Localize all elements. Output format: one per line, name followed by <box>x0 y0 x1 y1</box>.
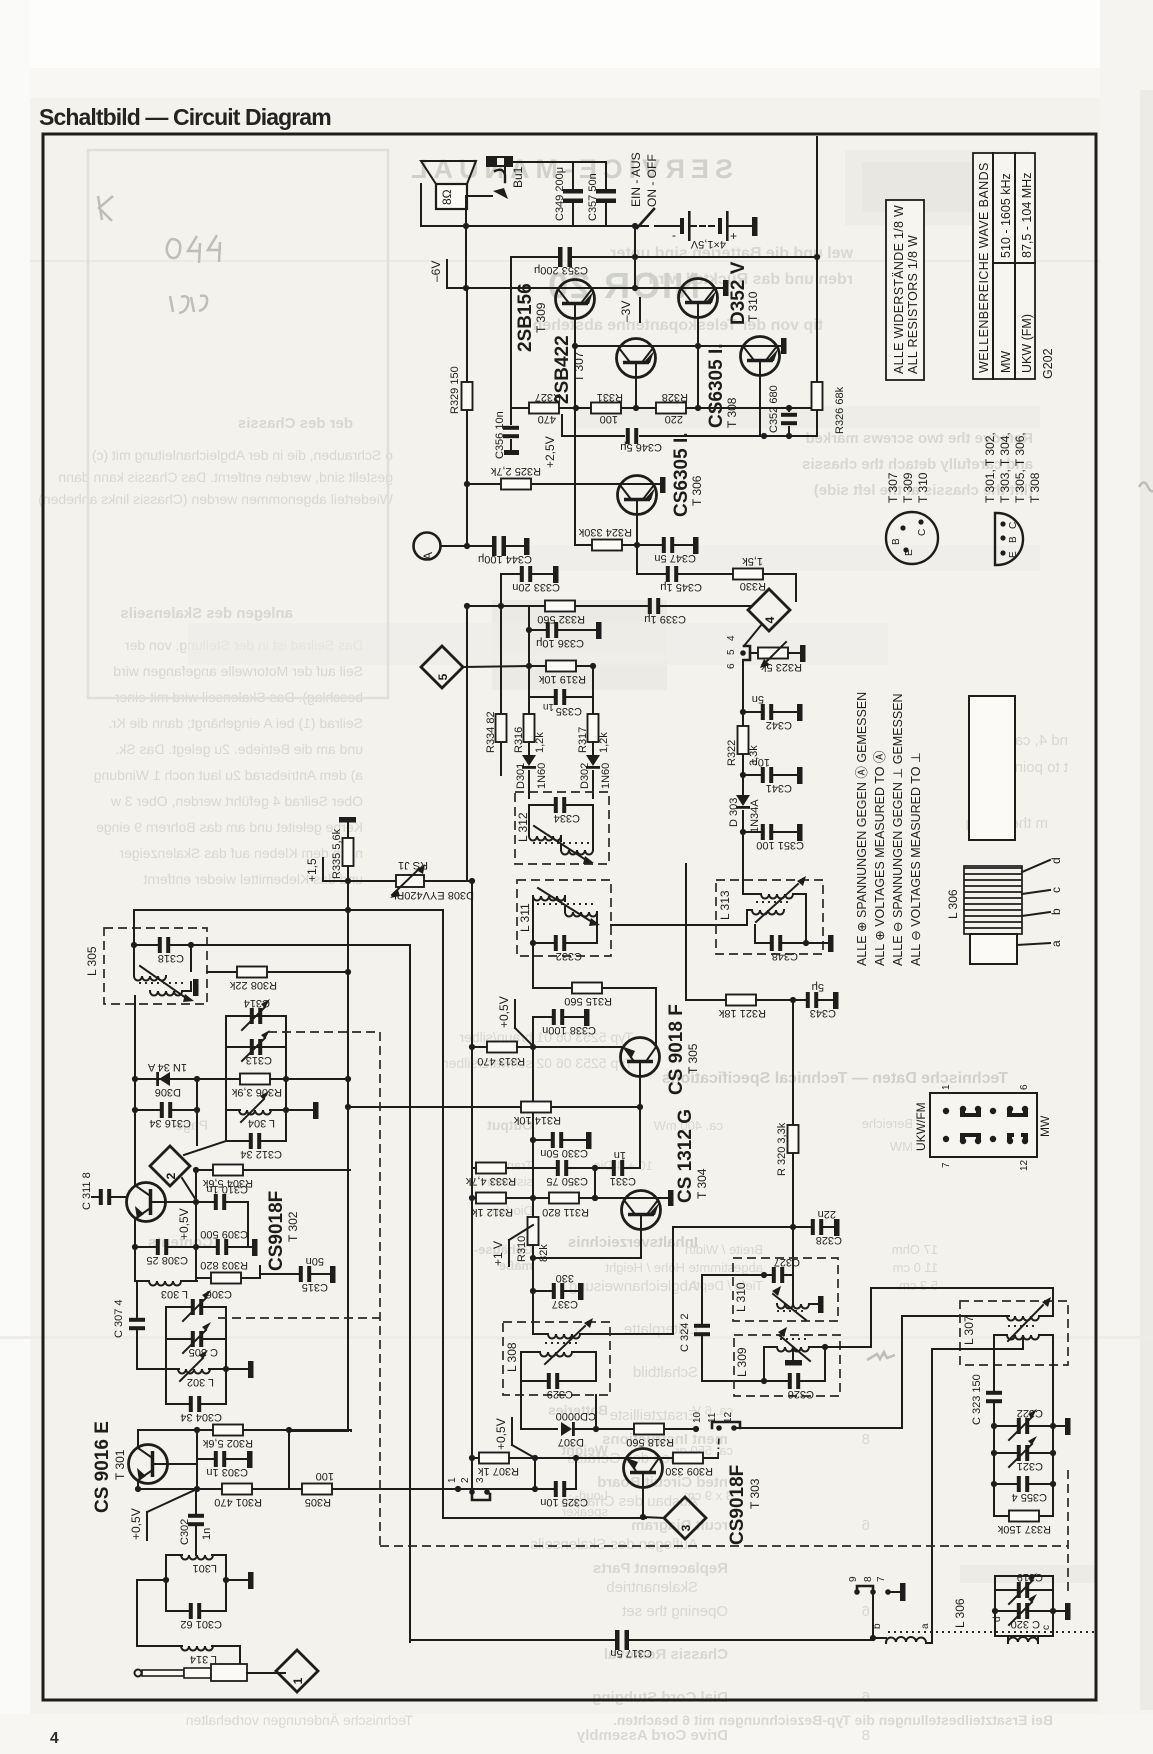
transistor D352V T310 <box>679 279 718 318</box>
capacitor C310 1n <box>196 1202 248 1247</box>
svg-text:1,2k: 1,2k <box>534 732 546 753</box>
earphone jack Bu1 <box>486 156 513 167</box>
capacitor C349 200u <box>572 162 574 226</box>
svg-text:C347 5n: C347 5n <box>654 552 696 564</box>
resistor R330 1.5k <box>733 569 763 580</box>
resistor R306 3.9k <box>226 1078 286 1080</box>
main vertical to R321 <box>686 864 728 1000</box>
bus y1489 with R301 / R305 <box>138 1488 458 1490</box>
svg-text:ALL ⊕ VOLTAGES MEASURED TO Ⓐ: ALL ⊕ VOLTAGES MEASURED TO Ⓐ <box>873 750 887 966</box>
svg-text:9: 9 <box>848 1576 859 1582</box>
L308 coil to C328 node riser <box>580 1227 793 1334</box>
svg-text:Inhaltsverzeichnis: Inhaltsverzeichnis <box>568 1234 698 1251</box>
svg-text:L 310: L 310 <box>734 1282 748 1312</box>
svg-text:1N60: 1N60 <box>536 763 548 789</box>
svg-text:6: 6 <box>862 1603 870 1620</box>
svg-text:C321: C321 <box>1017 1460 1043 1472</box>
faint reversed logo blocks <box>845 150 1030 225</box>
svg-text:nach dem Kleben auf das Skalen: nach dem Kleben auf das Skalenzeiger <box>119 845 363 861</box>
svg-text:+0,5V: +0,5V <box>497 996 511 1028</box>
svg-text:C: C <box>1008 522 1019 529</box>
svg-text:T 309: T 309 <box>534 302 548 333</box>
resistor R315 560 <box>572 983 602 994</box>
telescopic antenna <box>135 1670 142 1677</box>
svg-text:b: b <box>872 1623 883 1629</box>
coil L312 windings <box>529 805 593 831</box>
resistor R319 10k <box>526 663 532 669</box>
resistor R325 2.7k <box>467 483 660 485</box>
svg-text:R309 330: R309 330 <box>665 1465 713 1477</box>
resistor R316 1.2k (vertical) <box>524 714 535 742</box>
capacitor C304 34 <box>166 1403 226 1405</box>
svg-text:UKW (FM): UKW (FM) <box>1020 314 1034 373</box>
svg-text:C306: C306 <box>206 1288 232 1300</box>
R322 column down from pot <box>742 660 744 712</box>
svg-text:ALL ⊖ VOLTAGES MEASURED TO ⊥: ALL ⊖ VOLTAGES MEASURED TO ⊥ <box>909 752 923 966</box>
svg-text:A: A <box>421 552 435 560</box>
wire bus right corner down <box>443 910 646 1518</box>
svg-text:R312 1k: R312 1k <box>472 1206 513 1218</box>
svg-text:87,5 - 104 MHz: 87,5 - 104 MHz <box>1020 173 1034 258</box>
resistor R303 820 <box>196 1266 260 1278</box>
diamond node 5 <box>421 646 463 688</box>
svg-text:C 324 2: C 324 2 <box>679 1313 691 1352</box>
svg-text:a: a <box>920 1623 931 1629</box>
wire diamond to pot pins <box>744 624 762 646</box>
svg-text:C 323 150: C 323 150 <box>971 1374 983 1425</box>
svg-text:C312 34: C312 34 <box>240 1148 282 1160</box>
resistor R308 22k <box>207 971 348 973</box>
resistor row: R327 470 <box>511 407 710 409</box>
resistor R326 68k (vertical) + feed from frame top <box>816 137 818 436</box>
svg-text:C341: C341 <box>766 782 792 794</box>
trimmer C319 <box>995 1589 1053 1591</box>
svg-text:C334: C334 <box>554 812 580 824</box>
svg-text:+1 V: +1 V <box>491 1241 505 1266</box>
svg-text:R310: R310 <box>516 1236 528 1262</box>
wire bus drop left <box>510 257 512 408</box>
wire L311 bottom to R315 <box>533 943 572 988</box>
svg-text:C302: C302 <box>179 1519 191 1545</box>
svg-text:7: 7 <box>876 1576 887 1582</box>
svg-text:Abgleichanweisung: Abgleichanweisung <box>569 1278 698 1295</box>
node junction <box>463 223 469 229</box>
svg-text:R305: R305 <box>305 1496 331 1508</box>
wire battery to ground <box>729 225 752 227</box>
wave band table <box>973 153 1035 379</box>
svg-text:R327: R327 <box>535 391 561 403</box>
svg-text:R307 1k: R307 1k <box>478 1465 519 1477</box>
svg-text:C350 75: C350 75 <box>546 1175 588 1187</box>
coil box L307 <box>960 1301 1068 1365</box>
resistor R302 5.6k <box>138 1430 351 1431</box>
svg-text:C308 25: C308 25 <box>146 1254 188 1266</box>
svg-text:C331: C331 <box>610 1175 636 1187</box>
svg-text:3: 3 <box>475 1477 486 1483</box>
svg-text:1N34A: 1N34A <box>749 799 761 833</box>
C319/C320 box <box>995 1576 1053 1636</box>
svg-text:C356 10n: C356 10n <box>494 411 506 459</box>
pins 10 11 12 <box>693 1426 699 1432</box>
coil L301 box <box>166 1555 226 1611</box>
svg-text:C316 34: C316 34 <box>149 1117 191 1129</box>
capacitor C347 5n + ground <box>637 544 693 546</box>
svg-text:Kerbe geleitet und am das Bohr: Kerbe geleitet und am das Bohrern 9 eing… <box>96 819 363 835</box>
capacitor C308 25 <box>132 1244 138 1250</box>
svg-text:CS9018F: CS9018F <box>266 1191 287 1271</box>
svg-text:R337 150k: R337 150k <box>997 1523 1051 1535</box>
wire L309 to L307 <box>825 1288 1053 1347</box>
wire Bu1 to junction <box>505 162 606 182</box>
svg-text:+2,5V: +2,5V <box>543 436 557 468</box>
svg-text:R322: R322 <box>726 740 738 766</box>
svg-text:470: 470 <box>538 413 556 425</box>
long bus y910 <box>134 909 443 911</box>
resistor R318 560 <box>634 1424 664 1435</box>
ground (battery) <box>752 217 758 236</box>
tuner box 2 verticals <box>166 1307 226 1404</box>
svg-text:1: 1 <box>447 1477 458 1483</box>
svg-text:CS9018F: CS9018F <box>727 1465 748 1545</box>
trimmer C314 <box>226 1015 286 1017</box>
transistor CS6305 T308 <box>741 337 780 376</box>
svg-text:Replacement Parts: Replacement Parts <box>593 1560 728 1577</box>
svg-text:R319 10k: R319 10k <box>538 673 586 685</box>
trimmer C313 <box>226 1046 286 1048</box>
svg-text:C315: C315 <box>302 1281 328 1293</box>
L307 tap down-left to L306 <box>932 1337 1023 1632</box>
svg-text:1,5k: 1,5k <box>742 555 763 567</box>
svg-text:220: 220 <box>665 413 683 425</box>
svg-text:CS6305 I.: CS6305 I. <box>671 433 692 518</box>
svg-text:T 310: T 310 <box>916 472 930 503</box>
svg-text:C337: C337 <box>552 1298 578 1310</box>
svg-text:C309 500: C309 500 <box>200 1228 248 1240</box>
svg-text:C336 10μ: C336 10μ <box>536 637 584 649</box>
svg-text:+1,5: +1,5 <box>305 858 319 882</box>
node row 606 <box>498 603 504 609</box>
resistor R333 4.7k <box>472 1167 533 1169</box>
svg-text:C304 34: C304 34 <box>180 1411 222 1423</box>
resistor R301 470 <box>222 1484 252 1495</box>
svg-text:R324 330k: R324 330k <box>578 526 632 538</box>
ground stub mid <box>283 1107 289 1113</box>
svg-text:T 308: T 308 <box>725 397 739 428</box>
resistor R337 150k <box>994 1515 1053 1517</box>
svg-text:R314 10k: R314 10k <box>513 1114 561 1126</box>
svg-text:R332 560: R332 560 <box>537 613 585 625</box>
svg-text:R323 5k: R323 5k <box>761 661 802 673</box>
svg-text:D301: D301 <box>515 763 527 789</box>
diode D302 1N60 <box>586 755 600 769</box>
svg-text:Dial Cord Stubging: Dial Cord Stubging <box>592 1689 728 1706</box>
svg-text:R301 470: R301 470 <box>214 1496 262 1508</box>
svg-text:Seil auf der Motorwelle angefa: Seil auf der Motorwelle angefangen wird <box>113 663 363 679</box>
long verticals <box>289 1430 348 1432</box>
svg-text:ALLE WIDERSTÄNDE 1/8 W: ALLE WIDERSTÄNDE 1/8 W <box>892 205 906 374</box>
svg-text:MW: MW <box>999 351 1013 373</box>
svg-text:5: 5 <box>436 673 450 680</box>
transistor 2SB156 T309 <box>556 280 595 319</box>
svg-text:1: 1 <box>941 1084 952 1090</box>
svg-text:C355 4: C355 4 <box>1012 1491 1047 1503</box>
wire L311 to L313 <box>611 910 747 925</box>
svg-text:ALLE ⊕ SPANNUNGEN GEGEN Ⓐ GEME: ALLE ⊕ SPANNUNGEN GEGEN Ⓐ GEMESSEN <box>855 692 869 966</box>
svg-text:22n: 22n <box>818 1208 836 1220</box>
svg-text:R329 150: R329 150 <box>449 366 461 414</box>
resistor R324 330k <box>592 540 622 551</box>
svg-text:MW: MW <box>1038 1115 1052 1137</box>
capacitor C328 22n + ground <box>790 1224 796 1230</box>
svg-text:6: 6 <box>862 1689 870 1706</box>
svg-text:C353 200μ: C353 200μ <box>534 264 588 276</box>
svg-text:10: 10 <box>692 1411 703 1423</box>
svg-text:Bei Ersatzteilbestellungen die: Bei Ersatzteilbestellungen die Typ-Bezei… <box>613 1712 1053 1728</box>
svg-text:E: E <box>1008 551 1019 558</box>
capacitor C316 34 <box>135 1109 197 1111</box>
capacitor C315 50n + ground <box>260 1273 330 1275</box>
svg-text:anlegen des Skalenseils: anlegen des Skalenseils <box>120 605 293 622</box>
svg-text:R315 560: R315 560 <box>564 995 612 1007</box>
diode D303 1N34A <box>742 775 744 796</box>
svg-text:ALLE ⊖ SPANNUNGEN GEGEN ⊥ GEME: ALLE ⊖ SPANNUNGEN GEGEN ⊥ GEMESSEN <box>891 693 905 966</box>
resistor R304 5.6k <box>196 1169 350 1171</box>
svg-text:12: 12 <box>1019 1159 1030 1171</box>
svg-text:C310 1n: C310 1n <box>206 1183 248 1195</box>
svg-text:R313 470: R313 470 <box>477 1055 525 1067</box>
resistor note box <box>886 200 924 380</box>
svg-text:C 311 8: C 311 8 <box>81 1172 93 1210</box>
svg-text:C329: C329 <box>547 1388 573 1400</box>
svg-text:8: 8 <box>863 1576 874 1582</box>
svg-text:T 307: T 307 <box>572 351 586 382</box>
svg-text:1n: 1n <box>614 1149 626 1161</box>
svg-text:C352 680: C352 680 <box>768 385 780 433</box>
svg-text:1N60: 1N60 <box>600 763 612 789</box>
svg-text:Ersatzteilliste: Ersatzteilliste <box>610 1407 698 1424</box>
trimmer C305 <box>166 1338 226 1340</box>
svg-text:Schaltbild: Schaltbild <box>633 1364 698 1381</box>
svg-text:Bu1: Bu1 <box>511 166 525 188</box>
coil L314 <box>137 1580 240 1668</box>
svg-text:C357 50n: C357 50n <box>587 173 599 221</box>
svg-text:L 313: L 313 <box>718 890 732 920</box>
coil L303 <box>149 1281 181 1286</box>
capacitor C312 34 <box>226 1140 286 1142</box>
svg-text:C348: C348 <box>772 950 798 962</box>
svg-text:L 302: L 302 <box>187 1376 214 1388</box>
svg-text:D307: D307 <box>558 1436 584 1448</box>
capacitor C351 100 + ground <box>740 829 746 835</box>
svg-text:C344 100μ: C344 100μ <box>478 553 532 565</box>
svg-text:L 312: L 312 <box>516 812 530 842</box>
link to box <box>197 1078 226 1080</box>
svg-text:E: E <box>904 549 915 556</box>
transistor CS9016E T301 <box>129 1445 168 1484</box>
node A (circled) <box>414 533 441 560</box>
capacitor C343 5u + ground <box>806 992 818 1008</box>
svg-text:MW: MW <box>889 1139 913 1154</box>
svg-text:C333 20n: C333 20n <box>512 581 560 593</box>
coil L304 <box>226 1109 286 1111</box>
coil box L305 <box>104 928 207 1004</box>
svg-text:R302 5,6k: R302 5,6k <box>202 1437 253 1449</box>
svg-text:C325 10n: C325 10n <box>540 1496 588 1508</box>
coil box L310 <box>733 1258 838 1321</box>
coil L302 + ground <box>166 1368 226 1370</box>
T310 base column junction <box>695 405 701 411</box>
capacitor C341 10n + ground <box>740 772 746 778</box>
svg-text:L 309: L 309 <box>735 1347 749 1377</box>
resistor R335 5.6k (vertical) <box>343 838 354 866</box>
svg-text:10n: 10n <box>752 756 770 768</box>
svg-text:C 320: C 320 <box>1011 1618 1040 1630</box>
svg-text:R325 2,7k: R325 2,7k <box>490 465 541 477</box>
svg-text:C342: C342 <box>766 719 792 731</box>
svg-text:Technische Daten — Technical S: Technische Daten — Technical Specificati… <box>662 1070 1008 1087</box>
svg-text:T 308: T 308 <box>1028 472 1042 503</box>
voltage measurement note (rotated) <box>855 692 923 966</box>
svg-text:C345 1μ: C345 1μ <box>660 581 702 593</box>
svg-text:CS 9018 F: CS 9018 F <box>666 1004 687 1095</box>
svg-text:R326 68k: R326 68k <box>834 386 846 434</box>
svg-text:R335 5,6k: R335 5,6k <box>331 828 343 879</box>
svg-text:C303 1n: C303 1n <box>206 1466 248 1478</box>
svg-text:1N 34 A: 1N 34 A <box>147 1061 187 1073</box>
svg-text:Seilrad (1) bei A eingehängt;: Seilrad (1) bei A eingehängt; dann die K… <box>108 715 363 731</box>
svg-text:d: d <box>1049 857 1063 864</box>
svg-text:8: 8 <box>862 1727 870 1744</box>
svg-text:R311 820: R311 820 <box>542 1206 589 1218</box>
svg-text:T 304: T 304 <box>695 1168 709 1199</box>
ground stub L301 <box>226 1579 248 1581</box>
svg-text:d: d <box>992 1616 1003 1622</box>
svg-text:Drive Cord Assembly: Drive Cord Assembly <box>576 1727 728 1744</box>
svg-text:CS 9016 E: CS 9016 E <box>92 1421 113 1513</box>
resistor R314 10k row <box>348 1106 640 1108</box>
svg-text:510 - 1605 kHz: 510 - 1605 kHz <box>999 173 1013 258</box>
diamond node 4 <box>748 589 790 631</box>
resistor R310 82k (vertical) <box>528 1217 539 1245</box>
battery 4x1.5V <box>680 218 684 234</box>
svg-text:7: 7 <box>941 1162 952 1168</box>
svg-text:5μ: 5μ <box>812 981 824 993</box>
svg-text:C338 100n: C338 100n <box>542 1024 596 1036</box>
capacitor C326 <box>761 1378 767 1384</box>
svg-text:–3V: –3V <box>619 301 633 322</box>
svg-text:T 305: T 305 <box>686 1043 700 1074</box>
svg-text:R316: R316 <box>513 727 525 753</box>
capacitor C336 10u + ground <box>526 627 532 633</box>
svg-text:CS 1312 G: CS 1312 G <box>675 1109 696 1203</box>
coil box L311 <box>517 880 611 956</box>
svg-text:C349 200μ: C349 200μ <box>554 167 566 221</box>
resistor R312 1k <box>472 1197 533 1199</box>
svg-text:a) dem Antriebsrad 2u laut noc: a) dem Antriebsrad 2u laut noch 1 Windun… <box>94 767 363 783</box>
svg-text:1,2k: 1,2k <box>598 732 610 753</box>
svg-text:T 302: T 302 <box>286 1211 300 1242</box>
svg-text:L301: L301 <box>193 1562 217 1574</box>
svg-text:C335: C335 <box>556 705 582 717</box>
resistor R305 100 <box>302 1484 332 1495</box>
svg-text:330: 330 <box>556 1272 574 1284</box>
svg-text:R318 560: R318 560 <box>626 1436 674 1448</box>
coil box L309 <box>734 1335 840 1396</box>
wire speaker bottom <box>465 209 467 226</box>
svg-text:R303 820: R303 820 <box>200 1259 248 1271</box>
svg-text:6: 6 <box>1019 1084 1030 1090</box>
svg-text:WELLENBEREICHE WAVE BANDS: WELLENBEREICHE WAVE BANDS <box>977 162 991 373</box>
capacitor C344 100u + ground <box>467 545 524 547</box>
capacitor C318 <box>131 942 137 948</box>
svg-text:+0,5V: +0,5V <box>494 1418 508 1450</box>
svg-text:CD0000: CD0000 <box>556 1410 596 1422</box>
potentiometer RS J1 / D308 EYV420PI <box>348 880 396 882</box>
svg-text:5n: 5n <box>752 693 764 705</box>
svg-text:C343: C343 <box>810 1007 836 1019</box>
wire pin12 right and up to L307 <box>734 1316 1009 1428</box>
resistor R334 82 (vertical) <box>500 606 502 775</box>
resistor R309 330 <box>673 1453 703 1464</box>
resistor R332 560 <box>501 605 751 607</box>
svg-text:C319: C319 <box>1017 1571 1043 1583</box>
capacitor C325 10n <box>532 1486 538 1492</box>
svg-text:T 310: T 310 <box>746 291 760 322</box>
diamond node 3 <box>664 1497 706 1539</box>
-6V rail through T309/T310 collectors <box>447 287 723 289</box>
svg-text:Auflegen des Skalenseils: Auflegen des Skalenseils <box>530 1536 698 1553</box>
svg-text:5 3 cm: 5 3 cm <box>899 1278 938 1293</box>
vertical jack junction down to -6V rail <box>465 226 467 288</box>
svg-text:R308 22k: R308 22k <box>229 979 277 991</box>
svg-text:C313: C313 <box>246 1054 272 1066</box>
potentiometer R323 5k <box>758 648 788 659</box>
L313 windings <box>761 894 793 899</box>
resistor R313 470 <box>472 1046 533 1048</box>
svg-text:abgestimmte Höhe / Height: abgestimmte Höhe / Height <box>605 1260 763 1275</box>
svg-text:5: 5 <box>726 649 737 655</box>
svg-text:2: 2 <box>164 1172 178 1179</box>
capacitor C331 1n <box>595 1167 640 1169</box>
svg-text:Technische Änderungen vorbehal: Technische Änderungen vorbehalten <box>186 1712 413 1728</box>
svg-text:D 303: D 303 <box>728 798 740 827</box>
resistor R322 3.3k (vertical) <box>742 712 744 775</box>
svg-text:+: + <box>730 229 737 243</box>
svg-text:T 303, T 304,: T 303, T 304, <box>998 432 1012 503</box>
svg-text:G202: G202 <box>1041 348 1055 379</box>
loudspeaker <box>421 161 476 184</box>
svg-text:L 311: L 311 <box>518 903 532 932</box>
svg-text:C328: C328 <box>816 1234 842 1246</box>
capacitor C334 <box>529 804 593 806</box>
capacitor C332 <box>533 925 597 943</box>
transistor CS9018F T303 <box>535 1457 718 1459</box>
L305 windings <box>134 945 191 971</box>
svg-text:R331: R331 <box>597 391 623 403</box>
diode D301 1N60 <box>522 755 536 769</box>
svg-text:R321 18k: R321 18k <box>718 1007 766 1019</box>
svg-text:C346 5μ: C346 5μ <box>620 441 662 453</box>
capacitor C339 1u (series) <box>648 598 660 614</box>
C345 1u below T306 <box>637 545 734 574</box>
capacitor C309 500 + ground <box>196 1246 252 1248</box>
L311 windings <box>533 896 565 901</box>
capacitor C337 330 <box>530 1288 536 1294</box>
svg-text:17 Ohm: 17 Ohm <box>892 1242 938 1257</box>
transistor CS9018F T302 <box>127 1183 166 1222</box>
svg-text:Tran-: Tran- <box>502 1158 533 1173</box>
capacitor C303 1n + ground <box>197 1430 247 1489</box>
